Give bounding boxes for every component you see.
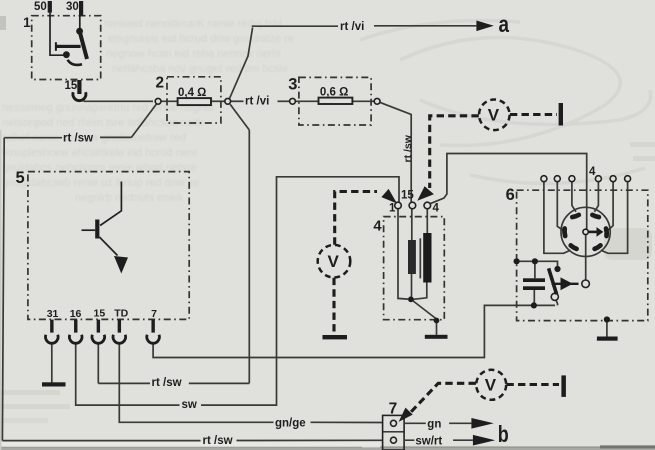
svg-text:negnirb nednuts eniek: negnirb nednuts eniek <box>75 192 184 204</box>
svg-text:30: 30 <box>66 1 79 13</box>
svg-text:0,6 Ω: 0,6 Ω <box>320 86 348 98</box>
svg-text:4: 4 <box>589 166 596 178</box>
svg-text:b: b <box>498 421 509 447</box>
svg-text:V: V <box>488 106 500 125</box>
svg-text:2: 2 <box>156 75 165 92</box>
svg-text:7: 7 <box>151 308 157 320</box>
svg-text:1: 1 <box>389 203 396 215</box>
svg-text:16: 16 <box>70 308 82 320</box>
svg-text:3: 3 <box>288 75 297 93</box>
svg-text:V: V <box>485 376 497 395</box>
svg-text:sw: sw <box>182 399 197 411</box>
svg-text:netlahcsba nov gnuget red tim: netlahcsba nov gnuget red tim hcsle <box>112 63 288 75</box>
svg-text:4: 4 <box>373 218 382 234</box>
svg-text:rt /sw: rt /sw <box>152 377 182 389</box>
svg-text:TD: TD <box>114 308 128 320</box>
svg-text:rt /sw: rt /sw <box>203 435 233 447</box>
svg-text:rt /vi: rt /vi <box>340 21 364 33</box>
svg-text:etsgnureis eid hcrud driw gnud: etsgnureis eid hcrud driw gnudnitze re <box>108 33 294 45</box>
svg-text:gnugidahcseb renie uz tknup re: gnugidahcseb renie uz tknup red driw se <box>2 177 200 189</box>
svg-text:50: 50 <box>34 1 47 13</box>
svg-text:4: 4 <box>433 203 440 215</box>
svg-text:5: 5 <box>16 169 25 187</box>
svg-text:reniseid nenoitknarK nenie red: reniseid nenoitknarK nenie redej tsbl <box>104 18 282 30</box>
svg-text:V: V <box>328 252 340 271</box>
svg-text:1: 1 <box>23 15 31 30</box>
svg-text:15: 15 <box>94 308 106 320</box>
svg-text:a: a <box>499 11 510 37</box>
svg-text:tknupleshcew ehcsirtkele eid h: tknupleshcew ehcsirtkele eid hcrud nere <box>2 147 198 159</box>
svg-text:rt /sw: rt /sw <box>402 134 414 162</box>
svg-text:gn: gn <box>427 419 441 431</box>
svg-text:gn/ge: gn/ge <box>275 417 306 429</box>
svg-text:6: 6 <box>506 186 515 204</box>
svg-text:nessemeg gnunnapsretnu red ien: nessemeg gnunnapsretnu red iense negnut <box>2 102 214 114</box>
svg-text:7: 7 <box>389 400 398 417</box>
svg-text:rt /vi: rt /vi <box>245 96 269 108</box>
svg-text:0,4 Ω: 0,4 Ω <box>178 87 206 99</box>
svg-text:15: 15 <box>65 80 78 92</box>
svg-text:31: 31 <box>47 308 59 320</box>
svg-text:rt /sw: rt /sw <box>63 133 93 145</box>
svg-text:negnow hcan eid reba nennok ne: negnow hcan eid reba nennok nerhi <box>106 48 281 60</box>
svg-text:sw/rt: sw/rt <box>415 436 442 448</box>
svg-text:15: 15 <box>401 190 414 202</box>
